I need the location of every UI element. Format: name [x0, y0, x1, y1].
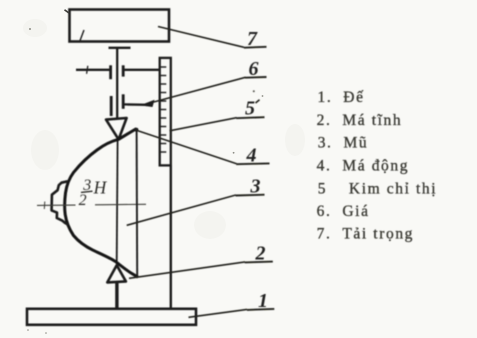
screw rod	[116, 48, 118, 119]
center line through hat right part	[95, 203, 146, 206]
svg-text:6. Giá: 6. Giá	[317, 203, 370, 220]
T-bar under load	[109, 47, 131, 49]
lower clamp right arm	[124, 103, 148, 106]
indicator scale (gia) body	[160, 58, 171, 165]
center axis line	[116, 140, 119, 265]
underline 1	[247, 309, 274, 310]
column stand	[170, 165, 172, 308]
tick above 5	[256, 100, 260, 103]
svg-text:7. Tải trọng: 7. Tải trọng	[317, 226, 414, 243]
upper clamp right plate	[122, 65, 125, 76]
svg-text:2. Má tĩnh: 2. Má tĩnh	[317, 112, 403, 129]
right vertical line from jaw corner	[136, 130, 139, 277]
leader line 2	[129, 262, 245, 278]
upper clamp left plate	[109, 65, 112, 79]
pen slip near load rect corner	[65, 10, 70, 13]
scan speckles	[27, 28, 263, 334]
leader line 7	[158, 27, 244, 48]
svg-text:2: 2	[79, 192, 87, 209]
svg-text:1. Đế: 1. Đế	[318, 89, 365, 106]
load rectangle (tai trong) 7	[70, 10, 170, 42]
base (de) 1	[27, 309, 196, 325]
leader line 4	[136, 130, 236, 164]
tick inside load rectangle	[80, 30, 85, 42]
dimension text 3/2 H	[79, 177, 108, 209]
fixed jaw lower triangle (ma tinh) 2	[107, 265, 126, 282]
underline 2	[245, 261, 273, 264]
upper clamp right arm	[125, 69, 160, 71]
svg-text:5: 5	[245, 98, 255, 120]
svg-text:3. Mũ: 3. Mũ	[318, 135, 369, 152]
svg-text:4. Má động: 4. Má động	[317, 158, 410, 175]
upper clamp left arm	[76, 69, 111, 71]
hat brim bump	[52, 181, 69, 225]
center line through hat left part	[37, 204, 76, 206]
lower clamp right plate	[122, 94, 125, 109]
svg-text:5 Kim chỉ thị: 5 Kim chỉ thị	[318, 180, 437, 197]
underline 5	[236, 117, 264, 118]
leader line 3	[127, 195, 236, 225]
underline 3	[236, 194, 265, 197]
dot above 5	[253, 90, 255, 92]
underline 7	[244, 46, 267, 49]
scale tick marks	[161, 67, 167, 152]
moving jaw upper triangle (ma dong) 4	[106, 118, 127, 139]
leader line 5	[170, 118, 237, 131]
junction dot at jaw corner	[134, 128, 138, 132]
tick on upper clamp left arm	[87, 66, 88, 74]
arrow head 6	[140, 100, 155, 107]
hat profile (mu) 3	[65, 129, 138, 278]
center line tick	[43, 202, 46, 210]
leader line 1	[189, 309, 248, 317]
underline 6	[245, 76, 267, 79]
svg-text:H: H	[93, 178, 108, 198]
faint scan blotches	[23, 19, 305, 239]
lower clamp left plate	[110, 96, 113, 116]
support post under fixed jaw	[115, 282, 118, 308]
leader line 6 with arrow	[144, 77, 246, 104]
underline 4	[236, 162, 269, 165]
